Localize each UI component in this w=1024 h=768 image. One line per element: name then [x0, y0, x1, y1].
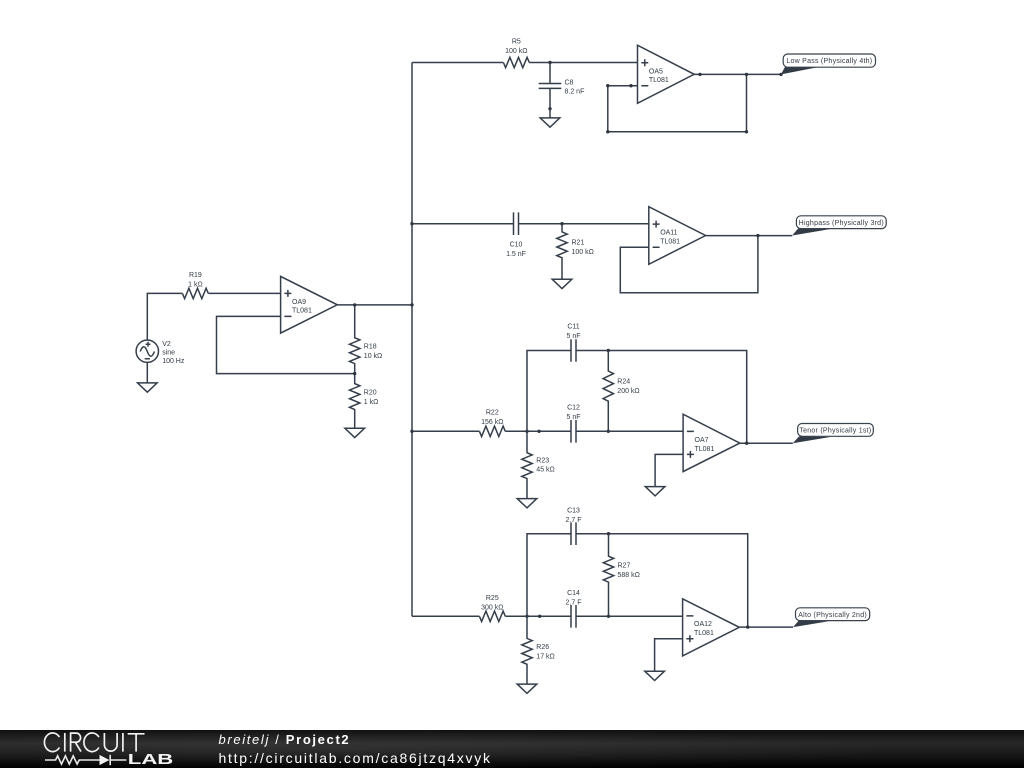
- node: feedback tap: [745, 73, 748, 76]
- node: bus junction high-pass: [410, 222, 413, 225]
- svg-text:R18: R18: [364, 344, 377, 351]
- wire: R22 to C12: [505, 430, 571, 432]
- node: wire end above ground: [548, 107, 551, 110]
- node: bus at OA9 output: [410, 303, 413, 306]
- svg-text:100 Hz: 100 Hz: [162, 358, 185, 365]
- wire: bus corner to R25: [412, 615, 479, 617]
- resistor R19: [182, 272, 208, 299]
- node: alto main junction: [525, 615, 528, 618]
- flag: Low Pass output: [781, 54, 876, 74]
- capacitor C14: [566, 590, 582, 628]
- resistor R5: [503, 39, 529, 68]
- node: R18/R20 feedback junction: [353, 372, 356, 375]
- flag: Highpass output: [792, 216, 886, 236]
- svg-text:1.5 nF: 1.5 nF: [506, 251, 526, 258]
- capacitor C11: [566, 324, 580, 362]
- svg-text:R26: R26: [536, 644, 549, 651]
- svg-text:R22: R22: [486, 410, 499, 417]
- svg-text:Highpass (Physically 3rd): Highpass (Physically 3rd): [799, 220, 884, 227]
- wire: OA5 feedback loop: [608, 74, 747, 131]
- node: OA5 inverting input: [629, 84, 632, 87]
- wire: OA12 output to flag: [739, 626, 793, 628]
- ground (below C8): [540, 118, 560, 127]
- ground (below R21): [552, 279, 572, 288]
- node: bus junction tenor: [410, 430, 413, 433]
- op-amp OA9: [281, 276, 338, 333]
- wire: OA7 output to flag: [740, 442, 793, 444]
- wire: riser to C11 branch: [527, 351, 571, 432]
- svg-text:http://circuitlab.com/ca86jtzq: http://circuitlab.com/ca86jtzq4xvyk: [219, 750, 492, 766]
- svg-text:1 kΩ: 1 kΩ: [188, 282, 203, 289]
- svg-text:OA5: OA5: [649, 68, 663, 75]
- node: feedback corner left: [606, 130, 609, 133]
- op-amp OA12: [683, 599, 740, 656]
- svg-text:C8: C8: [565, 80, 574, 87]
- wire: OA11 output to flag: [706, 235, 793, 237]
- svg-text:R23: R23: [536, 457, 549, 464]
- wire: C13 to feedback corner: [576, 534, 748, 627]
- svg-text:TL081: TL081: [660, 238, 680, 245]
- resistor R24: [603, 351, 640, 432]
- resistor R26: [522, 616, 555, 684]
- wire: OA9 output to bus: [337, 304, 412, 306]
- svg-text:OA7: OA7: [695, 437, 709, 444]
- svg-text:200 kΩ: 200 kΩ: [617, 388, 639, 395]
- capacitor C10: [506, 212, 526, 258]
- svg-text:LAB: LAB: [128, 752, 174, 768]
- svg-text:R24: R24: [617, 379, 630, 386]
- wire: bus to R22: [412, 430, 479, 432]
- wire: bus to R5 (low-pass section): [412, 62, 503, 64]
- node: R27 top junction: [607, 532, 610, 535]
- svg-text:156 kΩ: 156 kΩ: [481, 419, 503, 426]
- logo text CIRCUIT: [44, 733, 144, 752]
- op-amp OA5: [638, 45, 695, 103]
- wire: C14 to OA12 - input: [576, 615, 683, 617]
- wire: V2 to ground: [146, 362, 148, 383]
- svg-text:R19: R19: [189, 272, 202, 279]
- svg-text:breitelj / Project2: breitelj / Project2: [219, 732, 351, 747]
- ground (OA7 non-inverting): [645, 487, 665, 496]
- ground (below V2): [138, 383, 158, 392]
- capacitor C12: [566, 405, 580, 443]
- node: OA12 output feedback tap: [746, 625, 749, 628]
- wire: C11 to feedback corner: [576, 351, 747, 444]
- node: OA11 feedback tap: [756, 234, 759, 237]
- wire: R19 to OA9 + input: [208, 292, 280, 294]
- resistor R25: [479, 595, 505, 622]
- svg-text:C11: C11: [567, 324, 579, 331]
- svg-text:R21: R21: [572, 240, 585, 247]
- wire: C10 to OA11 + input: [519, 223, 649, 225]
- svg-text:2.7 F: 2.7 F: [566, 599, 582, 606]
- svg-text:TL081: TL081: [292, 308, 312, 315]
- node: flag wire end: [779, 73, 782, 76]
- node: OA9 output junction: [353, 303, 356, 306]
- svg-text:R20: R20: [364, 389, 377, 396]
- wire: stub to ground: [549, 109, 551, 118]
- node: R27 bottom junction: [607, 615, 610, 618]
- resistor R21: [557, 224, 594, 280]
- node: alto wire-end node: [538, 615, 541, 618]
- svg-text:45 kΩ: 45 kΩ: [536, 467, 554, 474]
- svg-text:588 kΩ: 588 kΩ: [618, 572, 640, 579]
- wire: left distribution bus: [411, 63, 413, 617]
- svg-text:sine: sine: [162, 349, 175, 356]
- wire: R25 to C14: [505, 615, 571, 617]
- wire: OA7 + input to ground: [655, 454, 683, 486]
- svg-text:5 nF: 5 nF: [566, 414, 580, 421]
- svg-text:Alto (Physically 2nd): Alto (Physically 2nd): [798, 612, 867, 619]
- logo diode: [100, 755, 127, 765]
- wire: bus to C10: [412, 223, 514, 225]
- op-amp OA7: [683, 414, 740, 471]
- svg-text:C14: C14: [567, 590, 580, 597]
- svg-text:5 nF: 5 nF: [566, 333, 580, 340]
- op-amp OA11: [649, 207, 706, 265]
- svg-text:100 kΩ: 100 kΩ: [505, 48, 527, 55]
- wire: OA11 feedback loop: [620, 236, 758, 293]
- node: R24 bottom junction: [607, 430, 610, 433]
- node: junction at R21 tap: [560, 222, 563, 225]
- svg-text:OA9: OA9: [292, 299, 306, 306]
- svg-text:OA11: OA11: [660, 230, 677, 237]
- svg-text:R27: R27: [618, 563, 631, 570]
- svg-text:R25: R25: [486, 595, 499, 602]
- svg-text:2.7 F: 2.7 F: [566, 517, 582, 524]
- svg-text:C12: C12: [567, 405, 580, 412]
- node: feedback corner upper: [606, 84, 609, 87]
- svg-text:C13: C13: [567, 507, 580, 514]
- svg-text:TL081: TL081: [694, 630, 714, 637]
- node: junction at C8 tap: [548, 61, 551, 64]
- ground (OA12 non-inverting): [645, 671, 665, 680]
- resistor R22: [479, 410, 505, 437]
- resistor R18: [350, 305, 383, 374]
- flag: Alto output: [793, 608, 870, 627]
- ground (below R23): [517, 499, 537, 508]
- svg-text:1 kΩ: 1 kΩ: [364, 399, 379, 406]
- node: tenor main junction: [525, 430, 528, 433]
- node: feedback corner right: [745, 130, 748, 133]
- node: R24 top junction: [607, 349, 610, 352]
- voltage source V2: [136, 340, 185, 365]
- wire: input to R19: [147, 293, 182, 340]
- wire: OA12 + input to ground: [655, 639, 683, 671]
- wire: R5 to OA5 + input: [529, 62, 637, 64]
- ground (below R20): [345, 428, 365, 437]
- resistor R23: [522, 431, 555, 498]
- svg-text:OA12: OA12: [694, 621, 712, 628]
- svg-text:R5: R5: [512, 39, 521, 46]
- svg-text:8.2 nF: 8.2 nF: [565, 88, 585, 95]
- svg-text:10 kΩ: 10 kΩ: [364, 353, 382, 360]
- svg-text:100 kΩ: 100 kΩ: [572, 249, 594, 256]
- svg-text:17 kΩ: 17 kΩ: [536, 654, 554, 661]
- svg-text:Tenor (Physically 1st): Tenor (Physically 1st): [799, 428, 871, 435]
- svg-text:TL081: TL081: [649, 77, 669, 84]
- resistor R20: [350, 374, 379, 429]
- resistor R27: [603, 534, 640, 617]
- svg-text:300 kΩ: 300 kΩ: [481, 604, 503, 611]
- svg-text:C10: C10: [510, 242, 523, 249]
- node: OA7 output feedback tap: [745, 442, 748, 445]
- capacitor C13: [566, 507, 582, 545]
- wire: riser to C13 branch: [527, 534, 571, 617]
- node: tenor wire-end node: [537, 430, 540, 433]
- svg-text:V2: V2: [162, 341, 171, 348]
- ground (below R26): [517, 684, 537, 693]
- wire: OA5 output to flag: [694, 73, 781, 75]
- capacitor C8: [539, 63, 585, 109]
- wire: C12 to OA7 - input: [576, 430, 683, 432]
- svg-text:Low Pass (Physically 4th): Low Pass (Physically 4th): [786, 58, 872, 65]
- svg-text:TL081: TL081: [695, 446, 715, 453]
- flag: Tenor output: [793, 424, 874, 444]
- wire: OA9 feedback loop: [217, 316, 355, 373]
- node: OA5 output: [698, 73, 701, 76]
- logo resistor squiggle: [45, 756, 100, 764]
